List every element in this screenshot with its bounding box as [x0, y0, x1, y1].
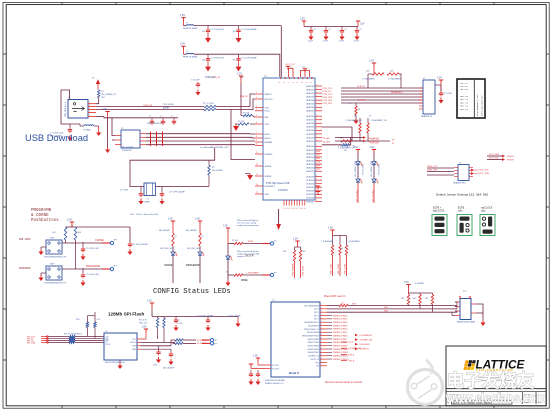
svg-text:CLB RX: CLB RX — [357, 100, 365, 102]
svg-text:EECLK: EECLK — [265, 138, 272, 140]
ferrite bead filter row 1 (L/C network) — [180, 14, 281, 77]
svg-text:FTDI_TDI: FTDI_TDI — [323, 91, 332, 93]
svg-text:TDI: TDI — [316, 366, 319, 368]
svg-text:1.5V: 1.5V — [180, 14, 185, 17]
svg-text:15: 15 — [256, 192, 258, 194]
capacitor C xtal right — [161, 187, 163, 192]
svg-text:ON?: ON? — [101, 97, 105, 99]
wire USB data pair — [96, 106, 204, 108]
U1 left pins (RESET/OSC/EEPROM) — [255, 92, 276, 196]
svg-text:CDONE: CDONE — [95, 239, 104, 242]
capacitor C 0.1uF — [82, 242, 84, 247]
resistor R pullup 10K — [98, 90, 100, 98]
svg-text:FTDI_TDO: FTDI_TDO — [323, 94, 333, 96]
svg-text:1: 1 — [316, 139, 317, 141]
svg-text:C? 0.1UF: C? 0.1UF — [191, 80, 200, 82]
wire — [112, 118, 115, 136]
svg-text:5: 5 — [89, 115, 90, 117]
svg-text:3.3V: 3.3V — [147, 300, 152, 303]
svg-text:1: 1 — [316, 125, 317, 127]
svg-text:1_PLACEMENT: 1_PLACEMENT — [246, 272, 260, 275]
svg-text:D? LED_0603: D? LED_0603 — [363, 164, 365, 175]
power flag 3.3V USB — [102, 108, 110, 115]
svg-text:C4 MIB7h GB: C4 MIB7h GB — [360, 340, 373, 342]
svg-text:TDO 7-8: TDO 7-8 — [460, 108, 469, 111]
svg-text:D5 RED B: D5 RED B — [360, 349, 370, 351]
svg-text:RESERVED: RESERVED — [391, 92, 403, 94]
svg-text:1: 1 — [316, 84, 317, 86]
svg-text:CDONE: CDONE — [164, 264, 173, 267]
svg-text:1uF ~ 10uF = Smart Pwr (3x): 1uF ~ 10uF = Smart Pwr (3x) — [130, 213, 159, 216]
svg-text:PB/SEG_PWD5: PB/SEG_PWD5 — [333, 332, 348, 334]
power flag 3.3V rgb — [404, 281, 411, 288]
jumper header J HEADER4X2 — [453, 163, 473, 185]
svg-text:C? 4.7UF-10UF: C? 4.7UF-10UF — [211, 29, 225, 31]
svg-text:1.5V: 1.5V — [354, 146, 359, 149]
svg-text:configuration programming: configuration programming — [237, 224, 258, 227]
svg-text:TP?: TP? — [274, 241, 277, 243]
svg-text:PULL-UP: PULL-UP — [139, 323, 148, 325]
ground — [438, 98, 443, 104]
svg-text:PGM R: PGM R — [507, 160, 514, 162]
svg-text:LED_RED_0603: LED_RED_0603 — [160, 248, 173, 250]
Lattice logo mark — [463, 360, 475, 370]
wire — [476, 304, 483, 320]
svg-text:7: 7 — [256, 132, 257, 134]
svg-text:1: 1 — [256, 92, 257, 94]
svg-text:U?: U? — [121, 128, 123, 130]
resistor column group R pullups FTDI — [283, 238, 306, 279]
svg-text:C? 0.1UF-0402MF: C? 0.1UF-0402MF — [241, 58, 258, 60]
svg-text:TP?: TP? — [274, 273, 277, 275]
wire SPI bus — [41, 335, 104, 343]
svg-text:9: 9 — [256, 140, 257, 142]
svg-text:14: 14 — [256, 184, 258, 186]
svg-text:1: 1 — [288, 82, 290, 83]
svg-text:ADBUS1: ADBUS1 — [306, 88, 314, 91]
svg-text:TVS_DIODE: TVS_DIODE — [163, 104, 174, 106]
LED indicator PROGRAMN with resistor — [186, 218, 204, 284]
svg-text:BCBUS3: BCBUS3 — [306, 187, 314, 189]
svg-text:680_0402MF: 680_0402MF — [186, 230, 197, 232]
svg-text:PB/SDI/SEG9 PWD7: PB/SDI/SEG9 PWD7 — [302, 335, 319, 337]
wire shield loop — [61, 90, 70, 124]
svg-text:1: 1 — [316, 102, 317, 104]
svg-text:1: 1 — [316, 132, 317, 134]
svg-text:TX LED: TX LED — [323, 138, 331, 140]
svg-text:RESET#: RESET# — [265, 94, 273, 96]
resistor R 1M feedback — [208, 160, 210, 165]
svg-text:C4 MIB7h GB: C4 MIB7h GB — [349, 348, 362, 350]
svg-text:R?: R? — [349, 103, 351, 105]
power flag 3.3V pushbuttons — [67, 219, 74, 226]
wire bus FTDI JTAG to header — [323, 88, 424, 105]
svg-text:1: 1 — [316, 91, 317, 93]
svg-text:R? LED? R: R? LED? R — [369, 142, 380, 144]
jumper option ECP5 only — [457, 207, 472, 236]
svg-text:1.5V: 1.5V — [240, 77, 245, 79]
svg-text:USB Download: USB Download — [25, 133, 88, 143]
capacitor C bank8 b — [257, 370, 259, 372]
FPGA bank 8 block U1 LFE5UM — [265, 300, 327, 377]
FTDI USB interface IC U1 FT2232H — [263, 76, 315, 200]
svg-text:1_PLACEMENT: 1_PLACEMENT — [321, 240, 333, 243]
svg-text:R? 10K: R? 10K — [232, 240, 239, 242]
wire bus to RGB LED — [348, 305, 457, 307]
svg-text:C?: C? — [149, 116, 151, 118]
svg-text:SEG13/PWD3: SEG13/PWD3 — [308, 349, 319, 351]
svg-text:SEG11/PWD5: SEG11/PWD5 — [308, 342, 319, 344]
resistor R 1M osc — [322, 144, 342, 146]
svg-text:DONE: DONE — [241, 279, 248, 282]
wire — [155, 186, 209, 188]
wire — [151, 309, 153, 317]
capacitor C flash out2 — [170, 349, 172, 352]
svg-text:CONFIG Status LEDs: CONFIG Status LEDs — [153, 288, 231, 296]
svg-text:1: 1 — [316, 200, 317, 202]
ground flash extra — [237, 318, 239, 321]
test point TP INITN — [262, 243, 270, 245]
ground suspend — [245, 173, 250, 175]
svg-text:1: 1 — [316, 178, 317, 180]
svg-text:EEDATA: EEDATA — [265, 141, 273, 144]
svg-text:IP4234CZ6: IP4234CZ6 — [122, 150, 132, 152]
svg-text:PB/SEG_PWD2: PB/SEG_PWD2 — [333, 322, 348, 324]
svg-text:PGM R: PGM R — [507, 156, 514, 158]
svg-text:BGA381, Bank8 I/O 1.5: BGA381, Bank8 I/O 1.5 — [265, 382, 284, 385]
svg-text:complete: complete — [237, 255, 244, 258]
svg-text:R?4 B: R?4 B — [349, 361, 355, 363]
svg-text:FTDI_GP1: FTDI_GP1 — [323, 103, 333, 105]
svg-text:3.3V: 3.3V — [180, 43, 185, 46]
svg-text:PWREN#: PWREN# — [265, 154, 274, 156]
svg-text:6: 6 — [256, 122, 257, 124]
svg-text:PB/SEG_PWD12: PB/SEG_PWD12 — [333, 356, 349, 358]
RGB LED D ASMB-MTB0 — [455, 291, 476, 324]
svg-text:Bank 8: Bank 8 — [289, 371, 299, 375]
wire — [352, 140, 390, 142]
ground — [41, 246, 46, 248]
svg-text:12M_CRYSTAL_OSC: 12M_CRYSTAL_OSC — [210, 146, 229, 149]
svg-text:FTDI High-Speed USB: FTDI High-Speed USB — [266, 183, 290, 185]
resistor R TEST pulldown — [250, 123, 255, 125]
svg-text:R? 12K: R? 12K — [243, 113, 250, 115]
svg-text:ACBUS4: ACBUS4 — [306, 129, 314, 132]
svg-text:1: 1 — [316, 118, 317, 120]
pushbutton SW PROGRAMN — [44, 264, 67, 285]
svg-text:DIP_1: DIP_1 — [314, 309, 319, 311]
svg-text:GND: GND — [265, 194, 270, 196]
svg-text:xxx: xxx — [341, 303, 344, 305]
decoupling capacitor bank C (4x) with grounds — [300, 18, 365, 43]
svg-text:1: 1 — [316, 122, 317, 124]
svg-text:1_PLACEMENT_ON: 1_PLACEMENT_ON — [345, 119, 362, 122]
svg-text:1: 1 — [284, 82, 286, 83]
svg-text:USB_DP: USB_DP — [240, 96, 249, 98]
svg-text:DIP_3: DIP_3 — [314, 315, 319, 317]
svg-text:1.5V: 1.5V — [370, 146, 375, 149]
svg-text:GND: GND — [132, 349, 137, 351]
svg-text:SI/WUB: SI/WUB — [265, 176, 272, 178]
wire — [130, 148, 215, 187]
svg-text:电子发烧友: 电子发烧友 — [447, 370, 535, 391]
svg-text:FERRITE_BEAD: FERRITE_BEAD — [183, 27, 198, 30]
svg-text:BCBUS1: BCBUS1 — [306, 180, 314, 182]
svg-text:BDBUS5: BDBUS5 — [306, 164, 314, 166]
svg-text:C? 4.7UF-10UF: C? 4.7UF-10UF — [211, 58, 225, 60]
wire TX/RX rows — [335, 137, 363, 139]
wire — [231, 110, 255, 160]
svg-text:ACBUS2: ACBUS2 — [306, 122, 314, 125]
wire — [278, 209, 280, 224]
resistor R series led — [339, 304, 348, 306]
title block title row — [451, 400, 512, 404]
svg-text:ACBUS3: ACBUS3 — [306, 126, 314, 129]
svg-text:RSTOUT#: RSTOUT# — [265, 99, 275, 101]
svg-text:Pushbuttons: Pushbuttons — [31, 218, 59, 223]
svg-text:PTS645SM43SMTR92 LFS: PTS645SM43SMTR92 LFS — [44, 257, 67, 259]
svg-text:ADBUS7: ADBUS7 — [306, 110, 314, 113]
svg-text:ACBUS1: ACBUS1 — [306, 119, 314, 122]
svg-text:FT2232H: FT2232H — [278, 190, 288, 192]
resistor R series tp1 — [175, 339, 183, 341]
wire — [141, 348, 171, 350]
svg-text:Remove internal names in symbo: Remove internal names in symbol? — [325, 381, 363, 384]
wire — [243, 243, 262, 245]
svg-text:1_PLACEMENT_ON: 1_PLACEMENT_ON — [370, 119, 387, 122]
svg-text:LED_RED_0603: LED_RED_0603 — [187, 248, 200, 250]
svg-text:LED_GREEN_0603: LED_GREEN_0603 — [355, 161, 357, 177]
svg-text:1: 1 — [316, 129, 317, 131]
svg-text:C? 0.1UF_0402: C? 0.1UF_0402 — [86, 274, 99, 276]
svg-text:ACBUS6: ACBUS6 — [306, 136, 314, 139]
svg-text:BCBUS6: BCBUS6 — [306, 198, 314, 200]
power flag 1.5V flash vcc — [142, 326, 149, 333]
svg-text:TDO: TDO — [315, 362, 319, 364]
capacitor C xtal left — [140, 187, 142, 192]
svg-text:PWR GOOD: PWR GOOD — [19, 238, 31, 241]
svg-text:CLB TX: CLB TX — [357, 86, 365, 88]
svg-text:1_PLACEMENT: 1_PLACEMENT — [347, 240, 359, 243]
ground flash — [119, 360, 121, 363]
svg-text:1.5V: 1.5V — [328, 227, 333, 230]
svg-text:SPI_CSN: SPI_CSN — [27, 342, 36, 344]
svg-text:R?3 B: R?3 B — [349, 354, 355, 356]
svg-text:D5 GREEN B: D5 GREEN B — [360, 335, 373, 337]
svg-text:SEG12/PWD4: SEG12/PWD4 — [308, 346, 319, 348]
resistor R series — [341, 140, 352, 142]
svg-text:12MHz: 12MHz — [144, 202, 150, 204]
svg-text:JTAG HEADER (1-10): JTAG HEADER (1-10) — [476, 94, 479, 116]
resistor R pullup pair — [368, 73, 372, 75]
wire — [327, 305, 339, 307]
svg-text:EECS: EECS — [265, 134, 271, 136]
svg-text:BD4: BD4 — [317, 165, 321, 167]
svg-text:DIP_4: DIP_4 — [314, 319, 319, 321]
jumper option ispCLOCK only — [480, 207, 495, 236]
svg-text:3.3V: 3.3V — [369, 60, 374, 63]
svg-text:1: 1 — [316, 109, 317, 111]
U1 top power pins — [279, 77, 312, 83]
svg-text:R?: R? — [101, 91, 103, 93]
svg-text:www.elecfans.com: www.elecfans.com — [445, 390, 546, 405]
wire — [427, 167, 454, 169]
svg-text:1_PLACEMENT: 1_PLACEMENT — [388, 78, 402, 81]
svg-text:PB/SEG_PWD9: PB/SEG_PWD9 — [333, 345, 348, 347]
svg-text:FTDI_SUSP: FTDI_SUSP — [303, 265, 305, 276]
svg-text:ADBUS5: ADBUS5 — [306, 103, 314, 106]
svg-text:ACBUS7: ACBUS7 — [306, 140, 314, 143]
svg-text:C?? 12PF_0402MF: C?? 12PF_0402MF — [169, 192, 186, 194]
power flag 3.3V header — [437, 77, 443, 84]
svg-text:C7x 100UF_0402MF: C7x 100UF_0402MF — [197, 316, 215, 318]
svg-text:1: 1 — [316, 99, 317, 101]
net labels bank8 column — [327, 315, 349, 361]
resistor R series RN1 — [204, 105, 216, 107]
svg-text:BDBUS2: BDBUS2 — [306, 153, 314, 155]
svg-text:SEG10/PWD6: SEG10/PWD6 — [308, 339, 319, 341]
svg-text:Default Jumper Settings:1&2, 3: Default Jumper Settings:1&2, 3&4, 5&6 — [436, 193, 489, 197]
svg-text:1: 1 — [316, 182, 317, 184]
svg-text:1: 1 — [316, 175, 317, 177]
svg-text:ARRAY: ARRAY — [163, 106, 170, 109]
power flag VCC bank8 — [253, 355, 260, 362]
svg-text:C? 0.1UF: C? 0.1UF — [444, 93, 453, 95]
svg-text:1: 1 — [316, 115, 317, 117]
ground — [227, 275, 229, 280]
LED indicator column x=374 — [370, 146, 381, 203]
svg-text:R7x 33_0402MF (4x): R7x 33_0402MF (4x) — [64, 333, 82, 335]
svg-text:4: 4 — [89, 111, 90, 113]
resistor network R 10K x3 RGB — [401, 293, 434, 312]
svg-text:D5 BLUE B: D5 BLUE B — [360, 344, 371, 346]
capacitor C header — [439, 91, 443, 96]
svg-text:R5R: R5R — [352, 304, 356, 306]
svg-text:PROGRAMN: PROGRAMN — [31, 209, 52, 213]
svg-text:PROGRAMN: PROGRAMN — [186, 264, 200, 267]
svg-text:PB+A2/SEG5/SCL: PB+A2/SEG5/SCL — [304, 321, 319, 324]
capacitor C 0.1uF 2 — [82, 268, 84, 273]
test point TP flash2 — [202, 342, 210, 344]
svg-text:1: 1 — [316, 196, 317, 198]
svg-text:FERRITE_BEAD: FERRITE_BEAD — [183, 55, 198, 58]
svg-text:1: 1 — [310, 82, 312, 83]
ground — [41, 272, 46, 274]
svg-text:1: 1 — [279, 82, 281, 83]
svg-text:D? LED_0603: D? LED_0603 — [379, 164, 381, 175]
net stubs bdbus red labels — [317, 151, 321, 171]
svg-text:BD2: BD2 — [317, 158, 321, 160]
svg-text:BD0: BD0 — [317, 151, 321, 153]
net arrows RGB — [355, 334, 373, 351]
svg-text:PB/SEG_PWD0: PB/SEG_PWD0 — [333, 315, 348, 317]
JTAG pinout reference table — [457, 79, 485, 118]
svg-text:C?? 12PF: C?? 12PF — [120, 190, 129, 192]
svg-text:R?: R? — [202, 236, 204, 238]
svg-text:8: 8 — [256, 136, 257, 138]
svg-text:BDBUS0: BDBUS0 — [306, 146, 314, 148]
title block frame — [446, 346, 546, 406]
svg-text:R?: R? — [392, 143, 394, 145]
svg-text:HEADER 4X2: HEADER 4X2 — [453, 182, 466, 185]
wire CDONE net — [62, 242, 102, 244]
svg-text:FTDI_TMS: FTDI_TMS — [489, 154, 499, 156]
watermark elecfans logo — [408, 360, 443, 405]
svg-text:13: 13 — [256, 174, 258, 176]
svg-text:1: 1 — [316, 193, 317, 195]
svg-text:PB/SEG_PWD3: PB/SEG_PWD3 — [333, 325, 348, 327]
resistor R INITN — [234, 242, 243, 244]
svg-text:PB/SEG_PWD6: PB/SEG_PWD6 — [333, 335, 348, 337]
svg-text:PB/SEG_PWD11: PB/SEG_PWD11 — [333, 352, 349, 354]
svg-text:BDBUS7: BDBUS7 — [306, 171, 314, 173]
resistor R series tp2 — [175, 342, 183, 344]
svg-text:ADBUS6: ADBUS6 — [306, 106, 314, 109]
svg-text:R?: R? — [212, 167, 214, 169]
wire — [96, 98, 99, 104]
svg-text:R?: R? — [175, 236, 177, 238]
svg-text:R? 10K: R? 10K — [238, 121, 245, 123]
svg-text:LFE5UM-45F-VERSA: LFE5UM-45F-VERSA — [265, 379, 285, 382]
wire — [66, 226, 76, 228]
svg-text:MX25L12835FM2I-10G: MX25L12835FM2I-10G — [105, 362, 125, 364]
svg-text:PB/SEG_PWD1: PB/SEG_PWD1 — [333, 319, 348, 321]
LED indicator CDONE with resistor — [159, 218, 177, 284]
svg-text:BDBUS4: BDBUS4 — [306, 160, 314, 162]
svg-text:C? 0.1UF-0402MF: C? 0.1UF-0402MF — [241, 29, 258, 31]
svg-text:1: 1 — [292, 82, 294, 83]
svg-text:R?_27_0402: R?_27_0402 — [203, 103, 214, 105]
svg-text:1_PLACEMENT: 1_PLACEMENT — [362, 78, 376, 81]
resistor R pullup bus pair — [86, 322, 88, 328]
svg-text:C?: C? — [160, 116, 162, 118]
svg-text:Y?: Y? — [147, 199, 149, 201]
power flag 3.3V flash — [147, 300, 154, 307]
svg-text:SEG14/PWD2: SEG14/PWD2 — [308, 352, 319, 354]
svg-text:PROGRAMN: PROGRAMN — [19, 267, 31, 270]
svg-text:VCCIO8: VCCIO8 — [272, 365, 279, 367]
svg-text:ADBUS2: ADBUS2 — [306, 92, 314, 95]
svg-text:FTDI_TCK: FTDI_TCK — [489, 158, 499, 160]
svg-text:TP?: TP? — [114, 266, 117, 268]
svg-text:DIP_2: DIP_2 — [314, 312, 319, 314]
LED D INITN — [227, 244, 229, 257]
svg-text:0.1UF_0402MF: 0.1UF_0402MF — [228, 316, 241, 318]
svg-text:ispCLOCK_TCK: ispCLOCK_TCK — [474, 169, 489, 171]
test point TP DONE — [262, 274, 270, 276]
svg-text:3.3V: 3.3V — [437, 77, 442, 80]
svg-text:RX LED: RX LED — [323, 142, 331, 144]
svg-text:FTDI_PWREN: FTDI_PWREN — [293, 263, 295, 276]
wire — [243, 274, 262, 276]
svg-text:680_0402MF: 680_0402MF — [159, 230, 170, 232]
resistor R DONE — [234, 274, 243, 276]
svg-text:& CDONE: & CDONE — [31, 214, 49, 218]
svg-text:1: 1 — [316, 148, 317, 150]
svg-text:OSCI: OSCI — [265, 107, 270, 109]
svg-text:1M_0402MF: 1M_0402MF — [212, 170, 223, 172]
svg-text:C?: C? — [178, 320, 180, 322]
power flag VCC bank8 b — [249, 364, 253, 368]
svg-text:TXD15, C4: TXD15, C4 — [310, 359, 319, 361]
svg-text:10NF_0402MF (3x): 10NF_0402MF (3x) — [147, 123, 163, 125]
svg-text:LED_GREEN/SDA: LED_GREEN/SDA — [304, 304, 320, 307]
wire — [455, 302, 457, 306]
LED indicator column x=358 — [354, 146, 365, 203]
wire — [340, 140, 341, 142]
U1 right pins ADBUS/ACBUS/BDBUS/BCBUS — [306, 84, 322, 203]
svg-text:PB/SEG_PWD8: PB/SEG_PWD8 — [333, 342, 348, 344]
